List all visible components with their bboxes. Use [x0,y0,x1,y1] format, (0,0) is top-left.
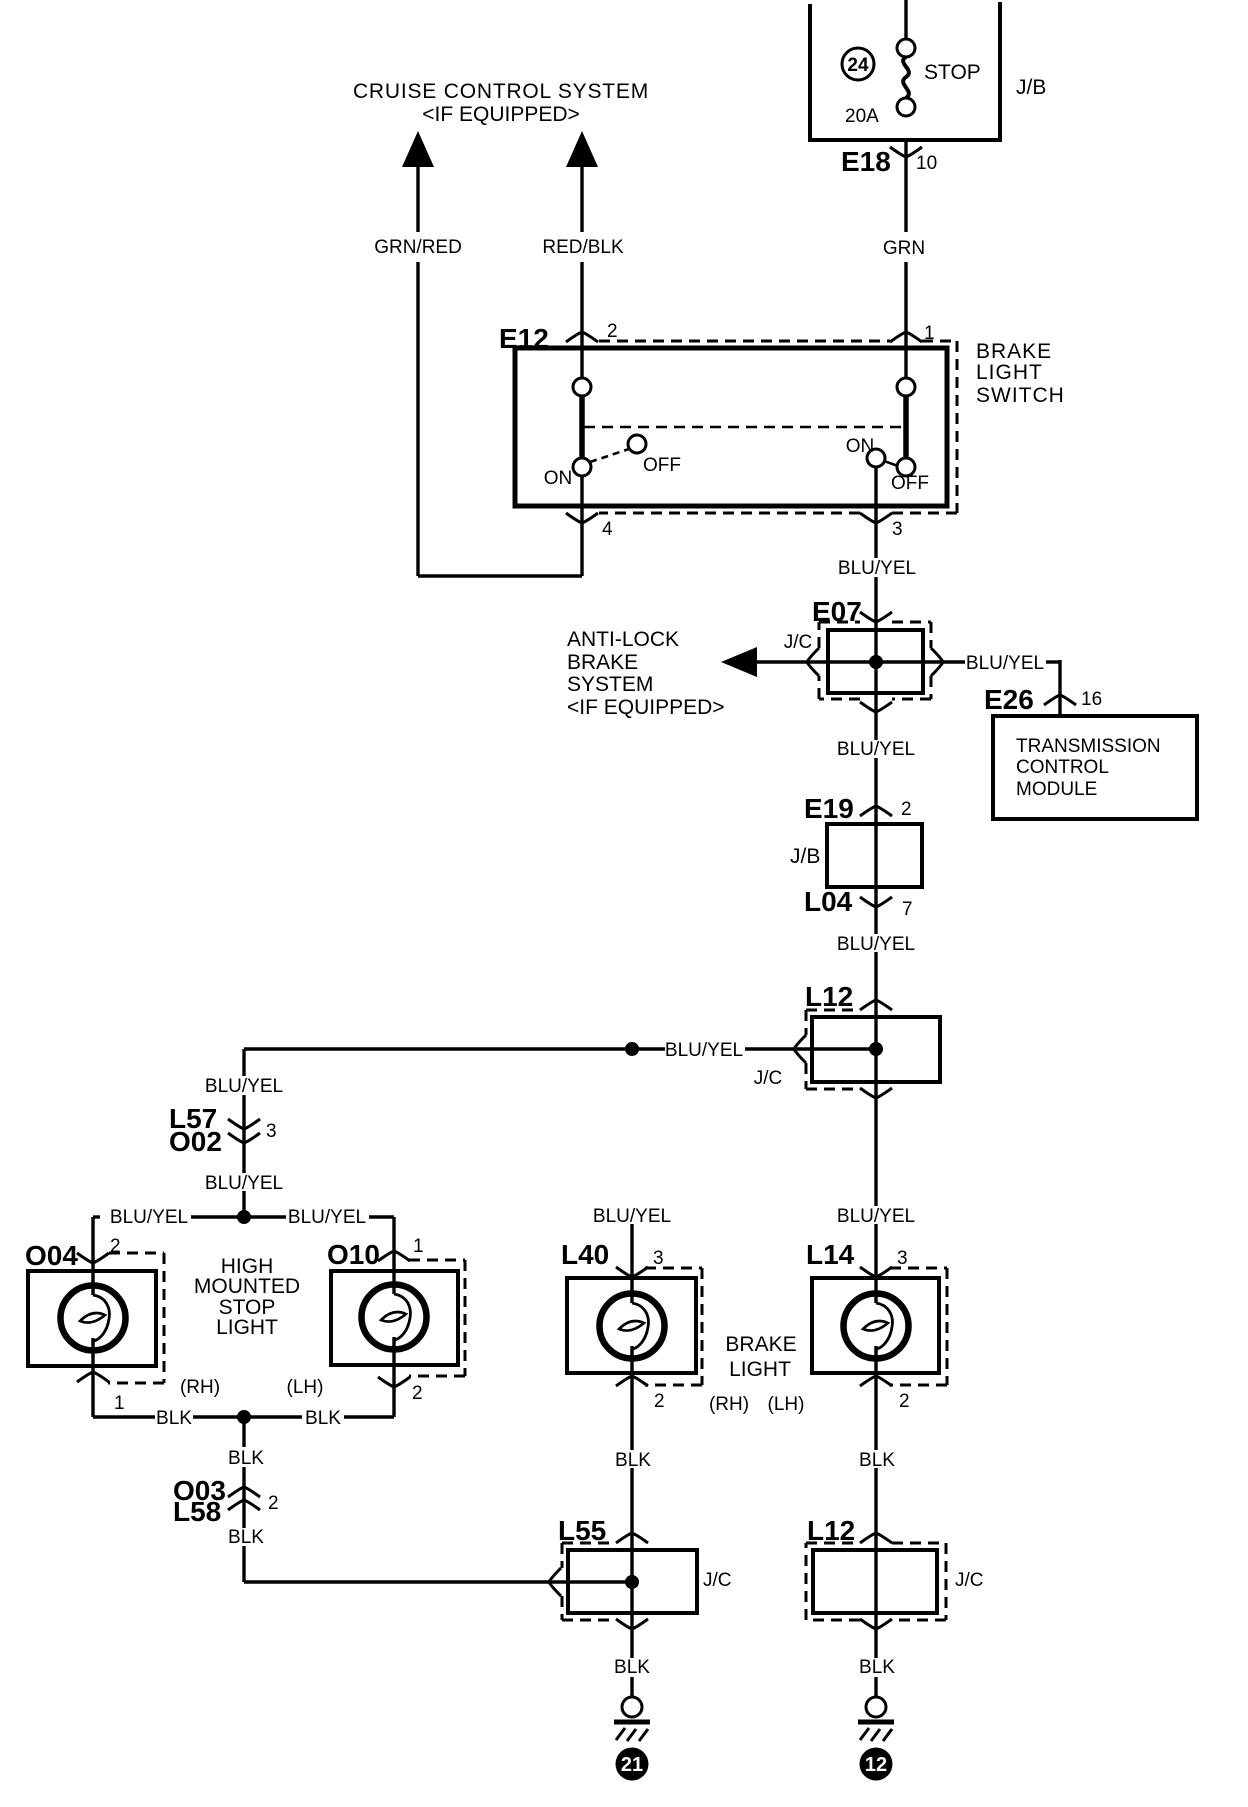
svg-text:2: 2 [899,1391,910,1412]
svg-text:J/C: J/C [703,1570,732,1591]
svg-text:4: 4 [602,519,613,540]
svg-text:L58: L58 [173,1496,221,1527]
svg-text:LIGHT: LIGHT [976,361,1043,384]
svg-text:E26: E26 [984,684,1034,715]
svg-text:J/B: J/B [1016,76,1046,99]
svg-text:<IF EQUIPPED>: <IF EQUIPPED> [567,696,725,719]
svg-text:ON: ON [846,436,875,457]
svg-text:BLK: BLK [305,1408,341,1429]
svg-text:L55: L55 [558,1515,606,1546]
svg-text:J/C: J/C [754,1068,783,1089]
svg-text:(LH): (LH) [287,1377,324,1398]
svg-text:BLK: BLK [228,1448,264,1469]
svg-text:ON: ON [544,468,573,489]
svg-text:J/B: J/B [790,845,820,868]
svg-text:L12: L12 [805,981,853,1012]
svg-text:TRANSMISSION: TRANSMISSION [1016,736,1161,757]
svg-text:2: 2 [412,1383,423,1404]
svg-text:12: 12 [865,1754,887,1776]
svg-text:3: 3 [892,519,903,540]
svg-text:STOP: STOP [924,61,981,84]
svg-text:BLK: BLK [615,1450,651,1471]
svg-text:<IF EQUIPPED>: <IF EQUIPPED> [422,103,580,126]
svg-text:J/C: J/C [784,632,813,653]
svg-text:CONTROL: CONTROL [1016,757,1109,778]
svg-text:BLK: BLK [859,1657,895,1678]
svg-text:20A: 20A [845,106,879,127]
svg-text:O02: O02 [169,1126,222,1157]
svg-text:OFF: OFF [891,473,929,494]
svg-text:7: 7 [902,899,913,920]
svg-text:LIGHT: LIGHT [216,1316,278,1339]
svg-text:CRUISE CONTROL SYSTEM: CRUISE CONTROL SYSTEM [353,80,649,103]
svg-text:3: 3 [653,1248,664,1269]
svg-text:O10: O10 [327,1239,380,1270]
svg-text:L04: L04 [804,886,853,917]
svg-text:GRN/RED: GRN/RED [374,237,462,258]
svg-text:SYSTEM: SYSTEM [567,673,653,696]
svg-text:LIGHT: LIGHT [729,1358,791,1381]
svg-text:BLK: BLK [228,1527,264,1548]
svg-text:(LH): (LH) [768,1394,805,1415]
svg-text:BLU/YEL: BLU/YEL [837,739,915,760]
svg-text:BRAKE: BRAKE [725,1333,796,1356]
svg-text:24: 24 [847,55,869,76]
svg-text:BLK: BLK [859,1450,895,1471]
svg-text:3: 3 [266,1121,277,1142]
svg-text:J/C: J/C [955,1570,984,1591]
svg-text:E19: E19 [804,793,854,824]
svg-text:GRN: GRN [883,238,925,259]
svg-text:BLU/YEL: BLU/YEL [288,1207,366,1228]
svg-text:16: 16 [1081,689,1102,710]
svg-text:OFF: OFF [643,455,681,476]
svg-text:(RH): (RH) [180,1377,220,1398]
svg-text:2: 2 [654,1391,665,1412]
svg-text:L12: L12 [807,1515,855,1546]
svg-text:ANTI-LOCK: ANTI-LOCK [567,628,679,651]
svg-text:1: 1 [114,1393,125,1414]
svg-text:BLU/YEL: BLU/YEL [837,1206,915,1227]
svg-text:BLU/YEL: BLU/YEL [205,1076,283,1097]
svg-text:MODULE: MODULE [1016,779,1097,800]
svg-text:BLU/YEL: BLU/YEL [593,1206,671,1227]
svg-text:2: 2 [607,321,618,342]
svg-text:L14: L14 [806,1239,855,1270]
svg-text:2: 2 [268,1493,279,1514]
svg-text:RED/BLK: RED/BLK [542,237,624,258]
svg-text:2: 2 [901,799,912,820]
svg-text:3: 3 [897,1248,908,1269]
svg-text:SWITCH: SWITCH [976,384,1065,407]
svg-text:BLU/YEL: BLU/YEL [665,1040,743,1061]
svg-text:BLU/YEL: BLU/YEL [110,1207,188,1228]
svg-text:BLK: BLK [156,1408,192,1429]
svg-text:21: 21 [621,1754,643,1776]
svg-text:BLU/YEL: BLU/YEL [966,653,1044,674]
svg-text:BLU/YEL: BLU/YEL [205,1173,283,1194]
svg-text:BRAKE: BRAKE [976,340,1052,363]
svg-text:BRAKE: BRAKE [567,651,638,674]
svg-text:L40: L40 [561,1239,609,1270]
svg-text:MOUNTED: MOUNTED [194,1275,300,1298]
svg-text:BLK: BLK [614,1657,650,1678]
svg-text:10: 10 [916,153,937,174]
svg-text:1: 1 [413,1236,424,1257]
svg-text:O04: O04 [25,1240,78,1271]
svg-text:BLU/YEL: BLU/YEL [838,558,916,579]
svg-text:BLU/YEL: BLU/YEL [837,934,915,955]
svg-text:E18: E18 [841,146,891,177]
svg-text:(RH): (RH) [709,1394,749,1415]
